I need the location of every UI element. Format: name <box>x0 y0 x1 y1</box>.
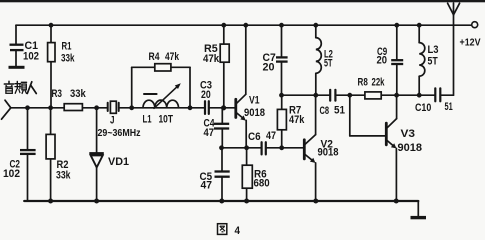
svg-text:9018: 9018 <box>244 107 265 119</box>
svg-text:R3: R3 <box>52 88 63 100</box>
svg-text:102: 102 <box>3 168 20 180</box>
svg-text:C6: C6 <box>248 131 261 143</box>
svg-text:J: J <box>110 115 115 127</box>
svg-text:47: 47 <box>204 127 215 139</box>
svg-text:VD1: VD1 <box>108 156 129 168</box>
svg-text:29~36MHz: 29~36MHz <box>98 128 141 139</box>
svg-text:47: 47 <box>201 180 213 192</box>
svg-text:R4: R4 <box>149 51 161 63</box>
svg-text:+12V: +12V <box>460 38 481 49</box>
svg-text:C10: C10 <box>415 102 431 114</box>
svg-text:5T: 5T <box>324 58 333 70</box>
svg-text:51: 51 <box>445 101 453 113</box>
svg-text:5T: 5T <box>428 56 438 68</box>
svg-text:9018: 9018 <box>318 147 339 159</box>
svg-text:20: 20 <box>263 62 275 74</box>
svg-text:33k: 33k <box>70 88 87 100</box>
svg-text:47k: 47k <box>203 53 220 65</box>
svg-text:47: 47 <box>266 130 276 142</box>
svg-text:20: 20 <box>201 89 211 101</box>
svg-text:C8: C8 <box>320 105 330 117</box>
svg-text:680: 680 <box>254 178 270 190</box>
svg-text:10T: 10T <box>159 113 174 125</box>
svg-text:V3: V3 <box>401 128 416 140</box>
svg-text:L1: L1 <box>143 114 152 126</box>
svg-text:47k: 47k <box>289 114 305 126</box>
svg-text:22k: 22k <box>372 77 386 89</box>
svg-text:20: 20 <box>377 55 388 67</box>
svg-text:33k: 33k <box>56 170 71 182</box>
svg-text:R8: R8 <box>358 77 368 89</box>
svg-text:33k: 33k <box>61 53 75 65</box>
svg-text:R1: R1 <box>62 40 72 52</box>
svg-text:4: 4 <box>235 225 241 236</box>
svg-text:V1: V1 <box>249 95 260 107</box>
svg-text:51: 51 <box>334 104 345 116</box>
svg-text:102: 102 <box>23 51 39 63</box>
svg-text:L3: L3 <box>428 44 439 56</box>
svg-text:9018: 9018 <box>398 142 423 154</box>
svg-text:47k: 47k <box>165 51 180 63</box>
